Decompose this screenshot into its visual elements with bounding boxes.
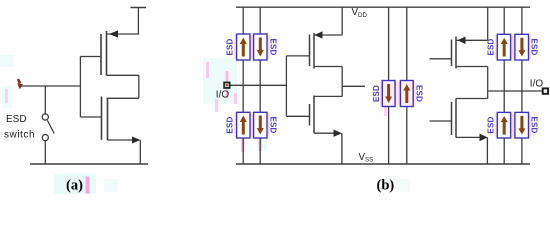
PMOS M5 source arrow — [458, 37, 466, 45]
jpeg artifact smudges (decorative) — [0, 35, 531, 194]
wire: NMOS M6 gate stub (dangling) — [430, 120, 452, 122]
wire: PMOS M5 source lead — [456, 39, 488, 41]
svg-text:ESD: ESD — [6, 114, 27, 125]
ground rail (a) — [30, 163, 148, 165]
NMOS M2 channel bar — [107, 98, 109, 140]
wire: PMOS M3 source to VDD rail — [341, 7, 343, 35]
wire: NMOS M6 source to VSS rail — [486, 137, 488, 164]
wire: gate link vertical (inv1) — [285, 56, 287, 116]
wire: NMOS gate stub (a) — [80, 116, 101, 118]
wire: inv2 output to I/O pad — [488, 90, 543, 92]
wire: NMOS M4 drain lead — [314, 95, 342, 97]
NMOS M6 source arrow — [480, 134, 488, 142]
I/O pad square (left) — [224, 83, 229, 88]
wire: switch branch lower — [44, 141, 46, 164]
wire: output bar inv1 — [341, 67, 343, 97]
ESD device D9 (up) VSS to right I/O — [497, 112, 510, 138]
wire: NMOS source down to ground rail — [139, 140, 141, 164]
VDD rail (b) — [236, 6, 530, 8]
wire: VDD bar to PMOS source (a) — [107, 8, 139, 35]
wire: inv1 output stub — [342, 85, 365, 87]
wire: ESD column 2 — [259, 7, 261, 164]
I/O pad square (right) — [543, 88, 548, 93]
PMOS M3 gate bar — [309, 35, 311, 67]
svg-text:(b): (b) — [377, 178, 395, 194]
NMOS M4 gate bar — [309, 104, 311, 126]
PMOS M1 source arrow (points into channel) — [109, 30, 118, 37]
NMOS M4 channel bar — [313, 96, 315, 134]
svg-text:VDD: VDD — [352, 7, 368, 19]
wire: PMOS gate stub (a) — [80, 56, 101, 58]
wire: input net I/O to inverter 1 gate — [230, 84, 287, 86]
wire: PMOS M5 drain lead — [456, 66, 488, 68]
wire: clamp column 3 — [388, 7, 390, 164]
wire: PMOS M3 source lead — [314, 34, 342, 36]
wire: NMOS M6 source lead — [456, 136, 481, 138]
svg-text:ESD: ESD — [415, 85, 424, 102]
wire: NMOS M2 drain lead — [107, 97, 139, 99]
wire: NMOS M4 source to VSS rail — [341, 133, 343, 164]
VSS rail (b) — [236, 163, 530, 165]
svg-text:I/O: I/O — [216, 90, 230, 101]
wire: ESD column 6 — [521, 7, 523, 164]
svg-text:ESD: ESD — [530, 38, 539, 55]
wire: ESD column 1 — [242, 7, 244, 164]
NMOS M2 source arrow (points out) — [132, 137, 141, 144]
wire: switch branch upper — [44, 86, 46, 114]
wire: NMOS M4 gate stub — [286, 115, 309, 117]
ESD device D4 (I/O to VSS, down) — [254, 112, 267, 138]
wire: PMOS M5 gate stub (dangling) — [430, 58, 452, 60]
wire: PMOS M5 source to VDD rail — [487, 7, 489, 40]
ESD power clamp D5 (VDD to VSS, down) — [382, 81, 395, 107]
wire: output bar (a) drain-drain — [138, 75, 140, 98]
svg-text:ESD: ESD — [268, 116, 277, 133]
ESD device D1 (I/O to VDD, up) — [237, 34, 250, 60]
svg-text:I/O: I/O — [530, 78, 544, 89]
ESD switch S1 bottom contact — [42, 135, 48, 141]
ESD device D3 (VSS to I/O, up) — [237, 112, 250, 138]
wire: ESD column 5 — [503, 7, 505, 164]
svg-text:ESD: ESD — [226, 38, 235, 55]
wire: NMOS M2 source lead — [108, 139, 135, 141]
wire: PMOS M3 gate stub — [286, 55, 309, 57]
ESD switch S1 lever (open) — [47, 120, 54, 133]
svg-text:ESD: ESD — [226, 116, 235, 133]
wire: PMOS M1 drain lead — [107, 74, 139, 76]
ESD device D7 (up) right I/O to VDD — [497, 34, 510, 60]
NMOS M4 source arrow — [334, 130, 342, 137]
NMOS M6 gate bar — [451, 102, 453, 135]
NMOS M6 channel bar — [455, 99, 457, 138]
svg-text:VSS: VSS — [359, 152, 374, 164]
wire: PMOS M3 drain lead — [314, 66, 342, 68]
wire: input net (a) — [21, 85, 81, 87]
svg-text:ESD: ESD — [487, 116, 496, 133]
wire: NMOS M6 drain lead — [456, 98, 488, 100]
ESD power clamp D6 (VSS to VDD, up) — [400, 81, 413, 107]
wire: output bar inv2 — [487, 67, 489, 99]
VDD supply bar (a) — [131, 7, 147, 9]
wire: NMOS M4 source lead — [314, 132, 335, 134]
svg-text:ESD: ESD — [268, 38, 277, 55]
ESD device D2 (VDD to I/O, down) — [254, 34, 267, 60]
PMOS M1 gate bar — [100, 34, 102, 75]
PMOS M1 channel bar — [106, 31, 108, 75]
PMOS M3 channel bar — [313, 33, 315, 69]
svg-text:switch: switch — [4, 129, 35, 140]
wire: gate link vertical (a) — [79, 57, 81, 118]
svg-text:(a): (a) — [66, 178, 83, 194]
NMOS M2 gate bar — [101, 97, 103, 140]
ESD device D8 (down) VDD to right I/O — [515, 34, 529, 60]
svg-text:ESD: ESD — [487, 38, 496, 55]
PMOS M3 source arrow — [315, 31, 323, 39]
ESD switch S1 top contact — [42, 114, 48, 120]
svg-text:ESD: ESD — [530, 116, 539, 133]
PMOS M5 channel bar — [455, 37, 457, 69]
PMOS M5 gate bar — [451, 40, 453, 67]
wire: clamp column 4 — [406, 7, 408, 164]
svg-text:ESD: ESD — [372, 85, 381, 102]
ESD zap strike symbol (red arrow) at input (a) — [17, 79, 23, 89]
ESD device D10 (down) right I/O to VSS — [515, 112, 529, 138]
